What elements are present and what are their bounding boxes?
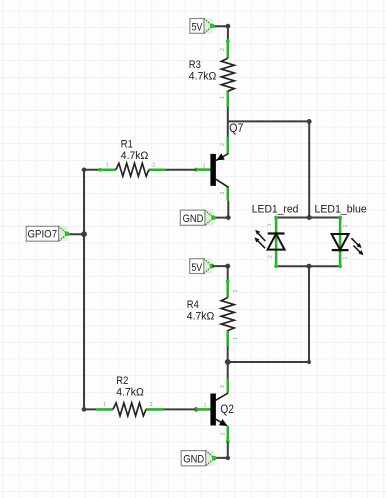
svg-text:R4: R4 <box>187 299 199 311</box>
svg-text:1: 1 <box>233 337 239 340</box>
resistor R4 <box>221 279 239 346</box>
node wire end at Q2 base <box>194 407 199 412</box>
wire R3 bottom to Q7 emitter with branch to LEDs <box>228 107 309 218</box>
label LED1_red <box>252 203 299 215</box>
svg-text:4.7kΩ: 4.7kΩ <box>116 387 144 399</box>
svg-text:1: 1 <box>204 403 207 409</box>
svg-text:5V: 5V <box>192 22 203 34</box>
wire R2 to Q2 base <box>163 408 196 410</box>
node bend GND-top corner <box>226 215 231 220</box>
svg-text:LED1_blue: LED1_blue <box>315 204 367 216</box>
svg-text:Q7: Q7 <box>229 121 243 135</box>
svg-text:GND: GND <box>183 213 204 225</box>
resistor R3 <box>220 39 234 107</box>
svg-text:4.7kΩ: 4.7kΩ <box>187 311 215 323</box>
node bend at (84,170) <box>82 168 87 173</box>
svg-text:2: 2 <box>220 48 226 51</box>
node wire end at LED1_red bottom <box>274 264 278 268</box>
svg-text:4.7kΩ: 4.7kΩ <box>121 150 149 162</box>
svg-text:R2: R2 <box>116 375 128 387</box>
wire GPIO7 net: vertical bus with corners to R1 and R2 <box>67 170 100 410</box>
node bend at (84,409) <box>82 407 87 412</box>
node bend at (228,458) <box>226 456 230 460</box>
node wire end at LED1_blue top <box>338 216 342 220</box>
wire LED top rail <box>276 217 340 219</box>
svg-text:1: 1 <box>267 223 273 226</box>
label Q2 <box>220 402 234 416</box>
svg-text:2: 2 <box>220 143 226 146</box>
svg-text:R1: R1 <box>121 138 133 150</box>
label R1 value <box>121 138 149 162</box>
label R3 value <box>189 59 217 83</box>
wire 5V-top to R3 <box>212 26 228 41</box>
resistor R1 <box>98 162 165 176</box>
svg-text:5V: 5V <box>191 262 202 274</box>
net label GND (bottom) <box>181 451 216 466</box>
svg-text:2: 2 <box>268 255 274 258</box>
svg-text:LED1_red: LED1_red <box>252 203 299 215</box>
svg-text:2: 2 <box>343 224 349 227</box>
svg-text:GND: GND <box>183 453 204 465</box>
svg-text:Q2: Q2 <box>220 402 234 416</box>
node bend at top-right of 5V <box>226 24 231 29</box>
node junction LED bottom rail <box>307 264 312 269</box>
net label 5V (top) <box>190 19 215 34</box>
label R4 value <box>187 299 215 323</box>
svg-text:1: 1 <box>343 256 349 259</box>
svg-text:3: 3 <box>220 191 226 194</box>
LED LED1_blue <box>332 217 364 267</box>
net label GPIO7 <box>26 226 69 241</box>
wire 5V-mid to R4 <box>212 266 228 280</box>
transistor Q7 (PNP) <box>194 137 228 200</box>
svg-text:1: 1 <box>103 402 106 408</box>
wire Q2 emitter to GND <box>214 442 228 458</box>
svg-text:2: 2 <box>150 402 153 408</box>
wire LED bottom rail <box>276 265 340 267</box>
svg-text:2: 2 <box>152 162 155 168</box>
svg-text:GPIO7: GPIO7 <box>28 229 58 241</box>
wire R1 to Q7 base <box>165 169 196 171</box>
svg-text:3: 3 <box>220 385 226 388</box>
svg-text:2: 2 <box>220 432 226 435</box>
svg-text:1: 1 <box>220 96 226 99</box>
svg-text:4.7kΩ: 4.7kΩ <box>189 70 217 82</box>
svg-text:1: 1 <box>203 163 206 169</box>
net label 5V (middle) <box>190 259 215 274</box>
net label GND (top) <box>180 210 215 225</box>
node junction GPIO7 (84,234) <box>81 231 87 237</box>
node junction at (228,266) <box>225 264 230 269</box>
svg-text:2: 2 <box>233 289 239 292</box>
transistor Q2 (NPN) <box>196 379 230 444</box>
svg-text:R3: R3 <box>189 59 201 71</box>
wire Q7 collector to GND <box>214 201 229 218</box>
label Q7 <box>229 121 243 135</box>
node junction at (228,362) <box>225 359 231 365</box>
label R2 value <box>116 375 144 399</box>
node bend at (309,362) <box>307 360 311 364</box>
LED LED1_red <box>254 217 284 267</box>
resistor R2 <box>96 402 163 416</box>
label LED1_blue <box>315 204 367 216</box>
wire R4 bottom to junction and Q2 collector <box>227 346 229 379</box>
wire LED bottom rail down to R4 junction <box>228 266 309 362</box>
svg-text:1: 1 <box>106 162 109 168</box>
node wire end at LED1_red anode-top <box>274 216 278 220</box>
node bend at (309,121) <box>307 119 312 124</box>
node wire end at LED1_blue bottom <box>338 264 342 268</box>
node junction LED top rail <box>307 215 312 220</box>
